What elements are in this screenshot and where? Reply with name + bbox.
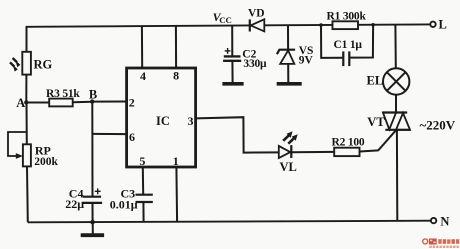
- wire rail through R1 to L terminal: [358, 23, 430, 25]
- svg-text:~220V: ~220V: [420, 118, 456, 133]
- wire pin 5 down to C3: [142, 167, 144, 195]
- svg-text:4: 4: [140, 69, 146, 83]
- lamp EL circle: [383, 68, 409, 94]
- resistor R3 body: [49, 99, 72, 107]
- wire VS branch from rail: [287, 25, 289, 49]
- svg-text:330μ: 330μ: [243, 58, 267, 70]
- wire node A to R3: [26, 102, 49, 104]
- wire node A down to RP: [26, 102, 28, 144]
- svg-text:3: 3: [188, 114, 194, 128]
- watermark logo bottom right: [423, 239, 460, 249]
- ground below C2: [222, 82, 243, 86]
- svg-text:CC: CC: [219, 15, 232, 25]
- capacitor C4 plus sign: [95, 188, 101, 194]
- capacitor C3 plates: [136, 194, 153, 196]
- terminal N circle: [431, 218, 436, 223]
- LED VL triangle: [279, 146, 291, 158]
- svg-text:A: A: [16, 96, 25, 110]
- wire R3 to node B: [73, 101, 93, 104]
- potentiometer RP wiper loop: [8, 132, 27, 156]
- svg-text:R3 51k: R3 51k: [46, 88, 80, 100]
- capacitor C2 plus sign: [225, 48, 231, 54]
- wire C4 to bottom rail: [92, 203, 94, 222]
- triac VT top bar: [383, 111, 408, 113]
- node B junction dot: [90, 99, 94, 103]
- svg-text:22μ: 22μ: [65, 197, 84, 211]
- op-amp IC box (timer): [127, 68, 196, 167]
- wire triac to bottom rail: [396, 130, 398, 221]
- wire EL to triac: [395, 95, 397, 113]
- junction dot ground node: [90, 220, 95, 225]
- wire C2 branch from rail: [231, 26, 233, 57]
- node A junction dot: [24, 100, 28, 104]
- potentiometer RP body: [23, 144, 31, 166]
- wire left vertical above RG: [26, 27, 28, 52]
- svg-text:RG: RG: [34, 58, 53, 72]
- wire C1 parallel branch: [321, 25, 342, 58]
- svg-text:VT: VT: [367, 115, 385, 129]
- resistor RG (photoresistor) body: [22, 52, 31, 75]
- diode VD triangle: [251, 19, 265, 31]
- svg-text:IC: IC: [156, 114, 170, 128]
- photoresistor RG light arrows: [10, 58, 20, 72]
- svg-text:6: 6: [129, 130, 135, 144]
- wire top rail left (Vcc rail): [27, 25, 250, 27]
- potentiometer RP wiper arrowhead: [16, 153, 23, 159]
- svg-text:0.01μ: 0.01μ: [110, 198, 138, 212]
- svg-text:L: L: [439, 17, 447, 31]
- svg-text:R1 300k: R1 300k: [327, 10, 367, 22]
- capacitor C2 plates: [224, 55, 241, 57]
- svg-text:EL: EL: [367, 74, 384, 88]
- wire C1 branch right side: [350, 25, 373, 58]
- zener diode VS bar with wing: [277, 50, 295, 55]
- svg-text:N: N: [440, 214, 449, 228]
- svg-text:5: 5: [139, 154, 145, 168]
- svg-text:9V: 9V: [299, 54, 314, 66]
- svg-text:R2 100: R2 100: [332, 137, 365, 149]
- wire triac gate diagonal: [378, 130, 396, 150]
- wire top rail right of VD to L: [264, 24, 332, 26]
- label Vcc: [213, 10, 232, 25]
- wire C2 to ground: [231, 61, 233, 82]
- wire VL to R2: [291, 151, 334, 153]
- wire pin 6 branch: [93, 133, 127, 135]
- node junction dot C1 right: [371, 23, 375, 27]
- svg-text:8: 8: [173, 69, 179, 83]
- resistor R2 body: [334, 148, 359, 156]
- zener diode VS triangle: [280, 50, 294, 64]
- LED VL bar: [290, 145, 292, 158]
- svg-text:C1 1μ: C1 1μ: [334, 39, 363, 51]
- capacitor C4 plates: [83, 196, 101, 198]
- wire node B down to C4: [91, 102, 93, 197]
- terminal L circle: [430, 22, 435, 27]
- wire node B to IC pin 2: [92, 101, 126, 103]
- node junction dot C1 left: [319, 23, 323, 27]
- triac VT bottom bar: [385, 129, 410, 131]
- svg-text:1: 1: [173, 154, 179, 168]
- LED VL emission arrows: [283, 131, 298, 143]
- wire EL branch from rail: [394, 25, 396, 69]
- wire pin 4 to top rail: [141, 26, 143, 68]
- wire VS to ground: [287, 64, 289, 82]
- wire R2 to gate: [360, 150, 379, 151]
- svg-text:B: B: [89, 88, 97, 102]
- svg-text:VL: VL: [280, 160, 297, 174]
- svg-text:VD: VD: [248, 8, 265, 20]
- wire RG bottom to node A: [25, 75, 27, 103]
- wire pin 3 to LED branch: [196, 117, 279, 152]
- svg-text:200k: 200k: [34, 156, 58, 168]
- wire pin 8 to top rail: [175, 26, 177, 68]
- triac VT left triangle: [383, 113, 396, 130]
- capacitor C1 plates: [342, 51, 344, 66]
- wire bottom rail: [28, 221, 431, 223]
- wire C3 to bottom rail: [142, 202, 144, 222]
- diode VD bar (cathode): [249, 19, 251, 31]
- resistor R1 body: [333, 21, 359, 29]
- ground below C4: [92, 222, 94, 234]
- lamp EL cross: [387, 72, 406, 91]
- triac VT right triangle: [396, 113, 410, 130]
- wire pin 1 to bottom rail: [175, 167, 178, 222]
- svg-text:2: 2: [129, 95, 135, 109]
- wire RP bottom to bottom rail: [26, 166, 29, 222]
- ground below VS: [277, 82, 302, 86]
